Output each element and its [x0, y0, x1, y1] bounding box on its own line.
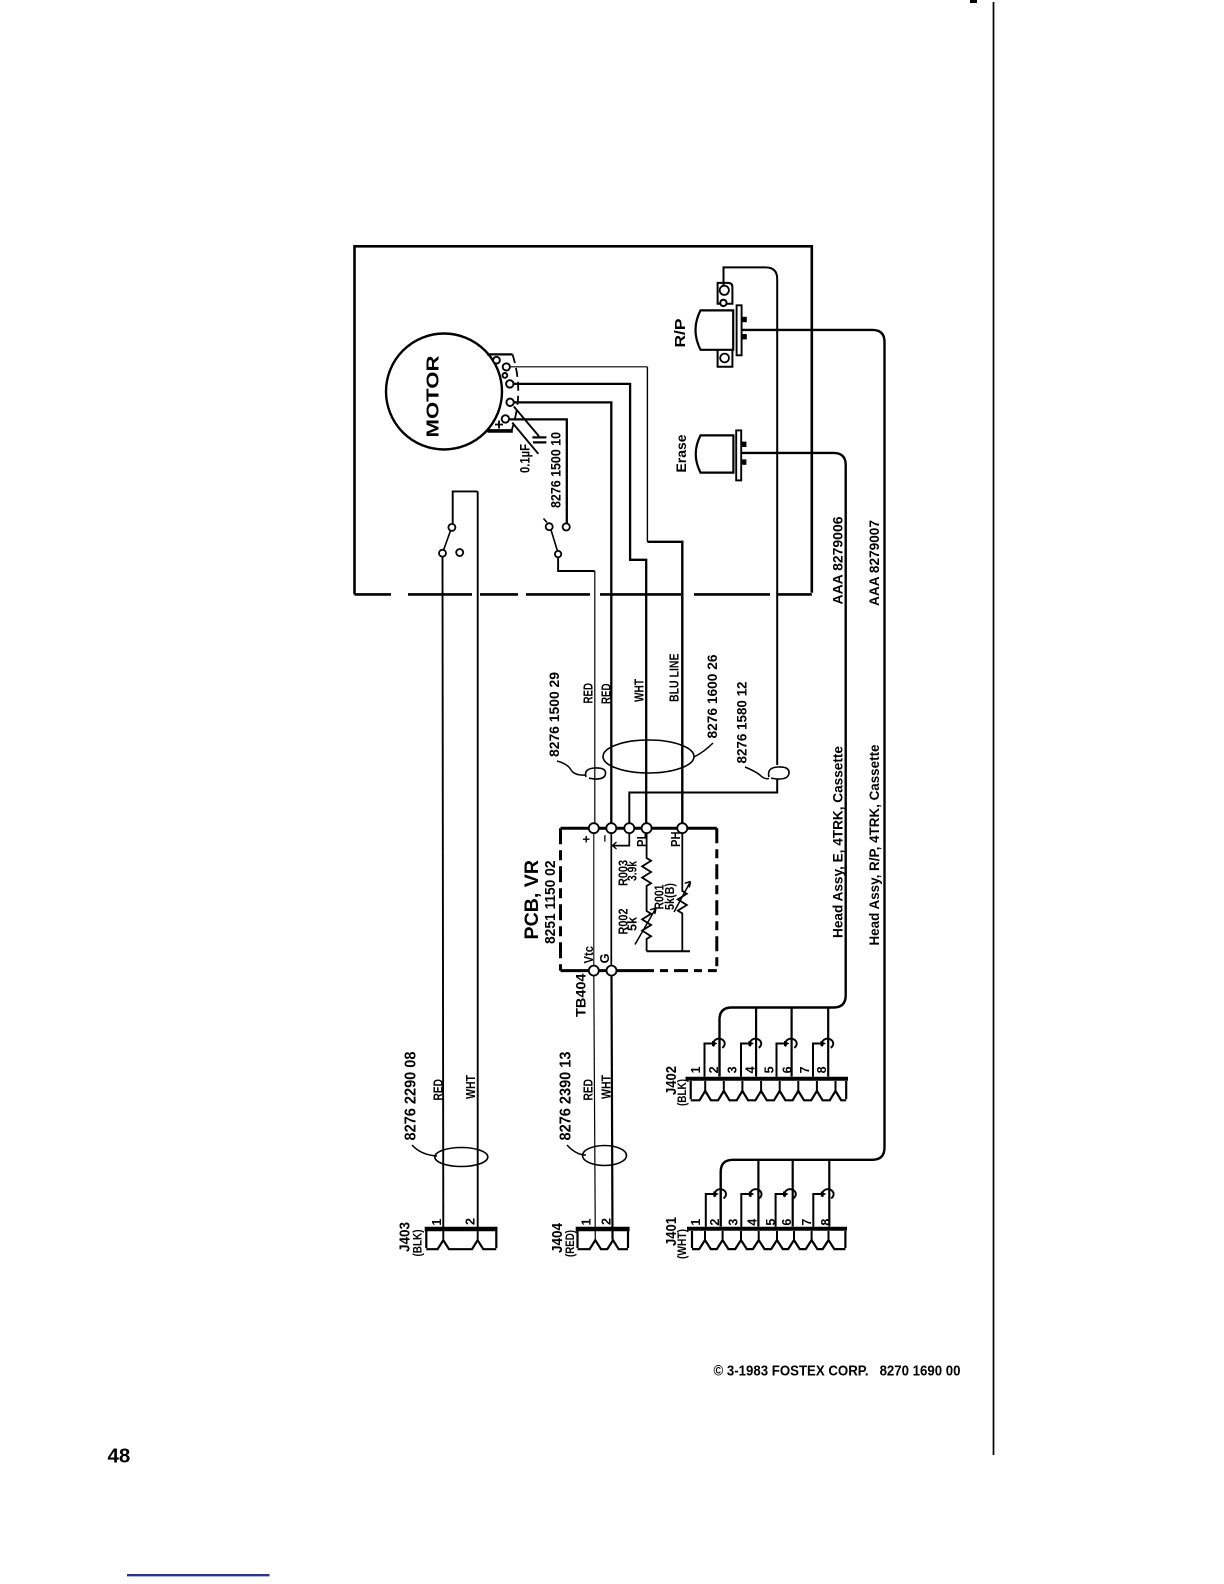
- svg-text:5: 5: [763, 1066, 777, 1073]
- svg-text:48: 48: [108, 1445, 131, 1468]
- svg-text:J404: J404: [550, 1223, 566, 1253]
- J401 hook arrowheads: [713, 1191, 826, 1197]
- connector J403: [425, 1229, 498, 1249]
- svg-text:Head Assy, R/P, 4TRK, Cassett: Head Assy, R/P, 4TRK, Cassette: [867, 744, 882, 945]
- motor terminal plate: [487, 354, 518, 431]
- wire continues to PCB t3: [629, 779, 777, 823]
- svg-text:G: G: [597, 953, 612, 963]
- PCB internal: minus to G line: [610, 834, 612, 965]
- J401 odd pin hooks: [706, 1194, 822, 1227]
- PCB terminals: [589, 823, 688, 975]
- PCB internal: plus to Vtc thin line: [593, 834, 595, 965]
- wire S1 to J403-2: [477, 491, 479, 1239]
- loop ellipse J403 pair: [435, 1148, 488, 1167]
- svg-text:WHT: WHT: [632, 679, 647, 702]
- svg-text:8276 1600 26: 8276 1600 26: [704, 654, 720, 738]
- plus mark: [495, 421, 503, 429]
- svg-text:8: 8: [819, 1219, 833, 1226]
- svg-text:1: 1: [689, 1219, 703, 1226]
- svg-text:TB404: TB404: [573, 973, 589, 1017]
- svg-text:1: 1: [430, 1219, 444, 1226]
- svg-text:6: 6: [780, 1066, 794, 1073]
- svg-text:+: +: [579, 835, 594, 843]
- svg-text:PH: PH: [668, 832, 683, 848]
- svg-text:8276 2390 13: 8276 2390 13: [558, 1051, 575, 1140]
- svg-text:J403: J403: [398, 1222, 414, 1252]
- connector J404: [576, 1229, 630, 1249]
- loop on wire x=777: [769, 767, 789, 779]
- svg-text:RED: RED: [581, 683, 596, 704]
- svg-text:0.1µF: 0.1µF: [518, 444, 533, 473]
- wire w3 RED : terminal to minus: [514, 402, 612, 822]
- svg-text:–: –: [597, 835, 612, 842]
- svg-text:7: 7: [800, 1219, 814, 1226]
- enclosure box: [355, 246, 812, 594]
- page right rule: [993, 2, 995, 1455]
- svg-text:1: 1: [580, 1219, 594, 1226]
- svg-text:2: 2: [708, 1219, 722, 1226]
- svg-text:1: 1: [689, 1066, 703, 1073]
- svg-text:4: 4: [744, 1066, 758, 1073]
- svg-text:RED: RED: [599, 684, 614, 705]
- wire R/P top tab up-over-down x=777: [724, 267, 778, 765]
- J402 hook arrowheads: [712, 1041, 826, 1047]
- J401 pin numbers: [689, 1219, 833, 1226]
- small loop on plus wire: [586, 768, 606, 779]
- svg-text:3.9k: 3.9k: [625, 860, 640, 881]
- loop ellipse J404 pair: [583, 1146, 627, 1166]
- wire S1 to J403-1: [442, 557, 445, 1240]
- svg-text:5: 5: [764, 1219, 778, 1226]
- svg-text:R/P: R/P: [672, 319, 689, 348]
- blue footer line: [127, 1574, 270, 1576]
- wire w2 WHT : terminal to PL: [513, 384, 646, 823]
- capacitor C1 0.1uF plates: [532, 437, 546, 442]
- J402 even pin wires: [756, 1008, 828, 1077]
- motor M1: [386, 334, 502, 450]
- switch S2: [544, 519, 595, 572]
- wire erase plate to J402 bus: [720, 453, 846, 1077]
- svg-text:3: 3: [726, 1219, 740, 1226]
- PCB internal: t3 jog to minus line: [612, 834, 629, 846]
- PCB internal bottom link: [647, 950, 690, 952]
- svg-text:WHT: WHT: [464, 1075, 478, 1099]
- svg-text:2: 2: [707, 1066, 721, 1073]
- svg-text:6: 6: [780, 1219, 794, 1226]
- J402 hook loops: [713, 1039, 833, 1048]
- R/P head: [696, 283, 747, 367]
- svg-text:8: 8: [815, 1066, 829, 1073]
- svg-text:Head Assy, E, 4TRK, Cassette: Head Assy, E, 4TRK, Cassette: [831, 746, 846, 938]
- svg-text:(WHT): (WHT): [677, 1229, 689, 1259]
- svg-text:5k(B): 5k(B): [662, 883, 677, 910]
- motor terminal pins: [493, 357, 514, 423]
- svg-text:8251 1150 02: 8251 1150 02: [542, 861, 559, 945]
- svg-text:MOTOR: MOTOR: [423, 355, 443, 437]
- svg-text:© 3-1983 FOSTEX CORP. 8270 1: © 3-1983 FOSTEX CORP. 8270 1690 00: [714, 1363, 961, 1380]
- connector J402: [686, 1079, 849, 1101]
- wire R/P plate to J401 bus: [721, 330, 885, 1227]
- svg-text:2: 2: [464, 1218, 478, 1225]
- wire w4 : terminal to switch S2: [509, 419, 567, 523]
- J401 pin stubs below bar: [705, 1231, 829, 1241]
- svg-text:8276 1580 12: 8276 1580 12: [734, 681, 750, 763]
- svg-text:3: 3: [725, 1066, 739, 1073]
- connector J401: [687, 1229, 847, 1249]
- cable bundle ellipse: [603, 740, 694, 773]
- J401 hook loops: [715, 1189, 834, 1198]
- J401 even pin wires: [758, 1160, 829, 1227]
- erase head: [696, 430, 747, 480]
- svg-text:Erase: Erase: [673, 434, 689, 472]
- svg-text:5k: 5k: [625, 916, 640, 931]
- svg-text:(BLK): (BLK): [677, 1079, 689, 1106]
- svg-text:RED: RED: [582, 1079, 596, 1101]
- J402 odd pin hooks: [705, 1044, 822, 1077]
- switch S1: [439, 491, 478, 556]
- svg-text:7: 7: [798, 1066, 812, 1073]
- svg-text:AAA 8279007: AAA 8279007: [866, 520, 882, 606]
- svg-text:8276 1500 29: 8276 1500 29: [546, 672, 562, 757]
- wire S2 to PCB plus: [594, 571, 596, 824]
- wire w1 BLU LINE : terminal to PH: [510, 367, 682, 823]
- svg-text:WHT: WHT: [600, 1075, 614, 1099]
- capacitor C1 0.1uF leads: [514, 407, 539, 437]
- J402 pin stubs below bar: [705, 1081, 835, 1092]
- svg-text:8276 2290 08: 8276 2290 08: [403, 1051, 420, 1140]
- PCB VR box: [561, 828, 717, 970]
- svg-text:8276 1500 10: 8276 1500 10: [548, 432, 564, 508]
- wire G to J404-2: [612, 976, 613, 1239]
- svg-text:BLU LINE: BLU LINE: [667, 653, 682, 702]
- J402 pin numbers: [689, 1066, 829, 1073]
- svg-text:(RED): (RED): [565, 1230, 577, 1257]
- svg-text:2: 2: [600, 1218, 614, 1225]
- top tick mark: [970, 0, 977, 3]
- svg-text:AAA 8279006: AAA 8279006: [830, 516, 846, 604]
- svg-text:(BLK): (BLK): [412, 1229, 424, 1256]
- svg-text:PCB, VR: PCB, VR: [521, 860, 543, 940]
- resistor R001 5k(B) variable: [678, 834, 687, 952]
- resistor R002 5k variable: [642, 893, 651, 951]
- wire Vtc to J404-1: [594, 976, 596, 1239]
- svg-text:RED: RED: [432, 1079, 446, 1101]
- svg-text:4: 4: [746, 1219, 760, 1226]
- resistor R003 3.9k: [642, 834, 651, 893]
